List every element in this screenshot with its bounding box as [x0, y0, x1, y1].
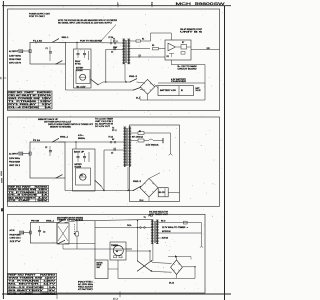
svg-text:C3 CAP 250V: C3 CAP 250V: [8, 292, 58, 295]
svg-text:RY1 RELAY 12V: RY1 RELAY 12V: [8, 103, 53, 106]
svg-text:R1: R1: [142, 39, 144, 41]
svg-text:D9–12: D9–12: [169, 283, 174, 285]
svg-text:MOTOR M1: MOTOR M1: [162, 231, 171, 233]
svg-text:B1 4.5V: B1 4.5V: [77, 86, 87, 88]
svg-text:T3 P.TRANS 120V: T3 P.TRANS 120V: [8, 280, 57, 283]
svg-text:R5: R5: [152, 45, 154, 47]
svg-text:C3: C3: [43, 232, 45, 234]
svg-text:SW1–2: SW1–2: [129, 76, 137, 78]
svg-text:B3 BATTERY 3V: B3 BATTERY 3V: [8, 289, 58, 292]
svg-text:DRIVE: DRIVE: [97, 265, 102, 267]
svg-text:120V 60Hz: 120V 60Hz: [9, 158, 20, 160]
svg-text:MCH 59800SW: MCH 59800SW: [176, 2, 226, 6]
svg-text:REF NO PART RATING: REF NO PART RATING: [8, 274, 56, 277]
svg-text:D5–8 DIODE 1A: D5–8 DIODE 1A: [8, 194, 50, 197]
svg-text:SW3 TIMER SW 125V: SW3 TIMER SW 125V: [8, 278, 57, 280]
svg-text:C2: C2: [45, 147, 47, 149]
svg-text:SW1 POWER SW 125V: SW1 POWER SW 125V: [8, 98, 52, 100]
svg-text:120V 60Hz: 120V 60Hz: [9, 55, 21, 57]
svg-text:FROM MAIN: FROM MAIN: [9, 160, 21, 163]
svg-text:D5–8: D5–8: [140, 200, 144, 202]
svg-text:RY 901: RY 901: [75, 64, 81, 66]
svg-text:CHARGER: CHARGER: [171, 80, 187, 83]
svg-text:DC 4.5V OUT: DC 4.5V OUT: [95, 126, 111, 128]
svg-text:C1: C1: [46, 48, 48, 50]
svg-text:HOLDER: HOLDER: [76, 70, 83, 72]
svg-text:50/60Hz: 50/60Hz: [78, 138, 85, 140]
svg-text:CB1 AC INLET 3P 125V 2A: CB1 AC INLET 3P 125V 2A: [8, 94, 52, 97]
svg-text:B1: B1: [181, 90, 183, 92]
svg-text:IC1: IC1: [167, 56, 170, 58]
svg-text:PT–1: PT–1: [113, 41, 118, 43]
svg-text:BATTERY 4.5V: BATTERY 4.5V: [160, 89, 177, 92]
svg-text:R2: R2: [139, 131, 141, 133]
svg-text:FROM POWER: FROM POWER: [10, 234, 22, 236]
svg-text:SUPPLY CORD PG: SUPPLY CORD PG: [9, 63, 21, 65]
svg-text:REF NO PART RATING: REF NO PART RATING: [8, 185, 48, 188]
svg-text:C4: C4: [111, 52, 113, 54]
svg-text:B2 BATTERY 4.5V: B2 BATTERY 4.5V: [8, 196, 49, 199]
svg-text:CIRCUIT BOARD: CIRCUIT BOARD: [178, 67, 198, 70]
svg-text:SW2–1: SW2–1: [60, 136, 68, 138]
svg-text:C5: C5: [111, 152, 113, 154]
svg-text:M: M: [116, 251, 118, 253]
svg-text:AC INPUT: AC INPUT: [9, 50, 19, 53]
svg-text:REF NO PART RATING: REF NO PART RATING: [8, 91, 52, 94]
svg-text:SW2–2: SW2–2: [133, 181, 141, 183]
svg-text:AC INPUT: AC INPUT: [9, 153, 19, 156]
svg-text:B2: B2: [81, 175, 83, 177]
svg-text:D1–4: D1–4: [136, 98, 140, 100]
svg-text:BACK UP: BACK UP: [74, 150, 85, 153]
svg-text:AC IN: AC IN: [10, 229, 15, 232]
svg-text:T1 P.TRANS 120V: T1 P.TRANS 120V: [8, 100, 53, 103]
svg-text:MEMORY BACK UP: MEMORY BACK UP: [38, 118, 59, 121]
svg-text:F1 1.6A: F1 1.6A: [33, 39, 43, 42]
svg-text:CORD CN 3: CORD CN 3: [10, 238, 21, 240]
svg-text:M1 MOTOR 117V: M1 MOTOR 117V: [8, 284, 57, 286]
svg-text:PT–3: PT–3: [149, 216, 153, 218]
svg-text:AT FACTORY: AT FACTORY: [78, 288, 94, 291]
svg-text:FROM POWER: FROM POWER: [9, 59, 22, 61]
svg-text:T2 P.TRANS 120V: T2 P.TRANS 120V: [8, 191, 49, 194]
svg-text:UNIT CN 2: UNIT CN 2: [9, 165, 20, 167]
svg-text:MEMORY IS RETAINED: MEMORY IS RETAINED: [50, 125, 72, 128]
svg-text:UNIT: UNIT: [97, 267, 101, 269]
svg-text:F2 1A: F2 1A: [33, 139, 41, 142]
svg-text:4.5V 300mA: 4.5V 300mA: [146, 143, 160, 146]
svg-text:PT–2: PT–2: [112, 130, 117, 132]
svg-text:NOTE: THE VOLTAGE VALUES ARE M: NOTE: THE VOLTAGE VALUES ARE MEASURED WI…: [58, 19, 117, 22]
svg-text:117V 60Hz TO TIMER ≈: 117V 60Hz TO TIMER ≈: [162, 227, 188, 229]
svg-text:FOR TV ONLY: FOR TV ONLY: [29, 16, 46, 18]
svg-text:UNIT B 6: UNIT B 6: [180, 31, 202, 33]
svg-text:SW1–1: SW1–1: [62, 37, 69, 39]
svg-text:D9–12 DIODE 1A: D9–12 DIODE 1A: [8, 286, 57, 289]
svg-text:T3: T3: [144, 217, 146, 219]
svg-text:C2 CAP 50V: C2 CAP 50V: [8, 199, 50, 202]
svg-text:R3 10: R3 10: [161, 220, 165, 222]
svg-text:FOR TV RECEIVER: FOR TV RECEIVER: [80, 41, 103, 43]
svg-text:D1–4 DIODE 1A: D1–4 DIODE 1A: [8, 106, 53, 109]
svg-text:SW2 SLIDE SW 125V: SW2 SLIDE SW 125V: [8, 189, 49, 191]
svg-text:MOTOR: MOTOR: [97, 262, 104, 264]
svg-text:NO SIGNAL INPUT. LINE VOLTAGE: NO SIGNAL INPUT. LINE VOLTAGE AC 120V 60…: [58, 22, 113, 25]
